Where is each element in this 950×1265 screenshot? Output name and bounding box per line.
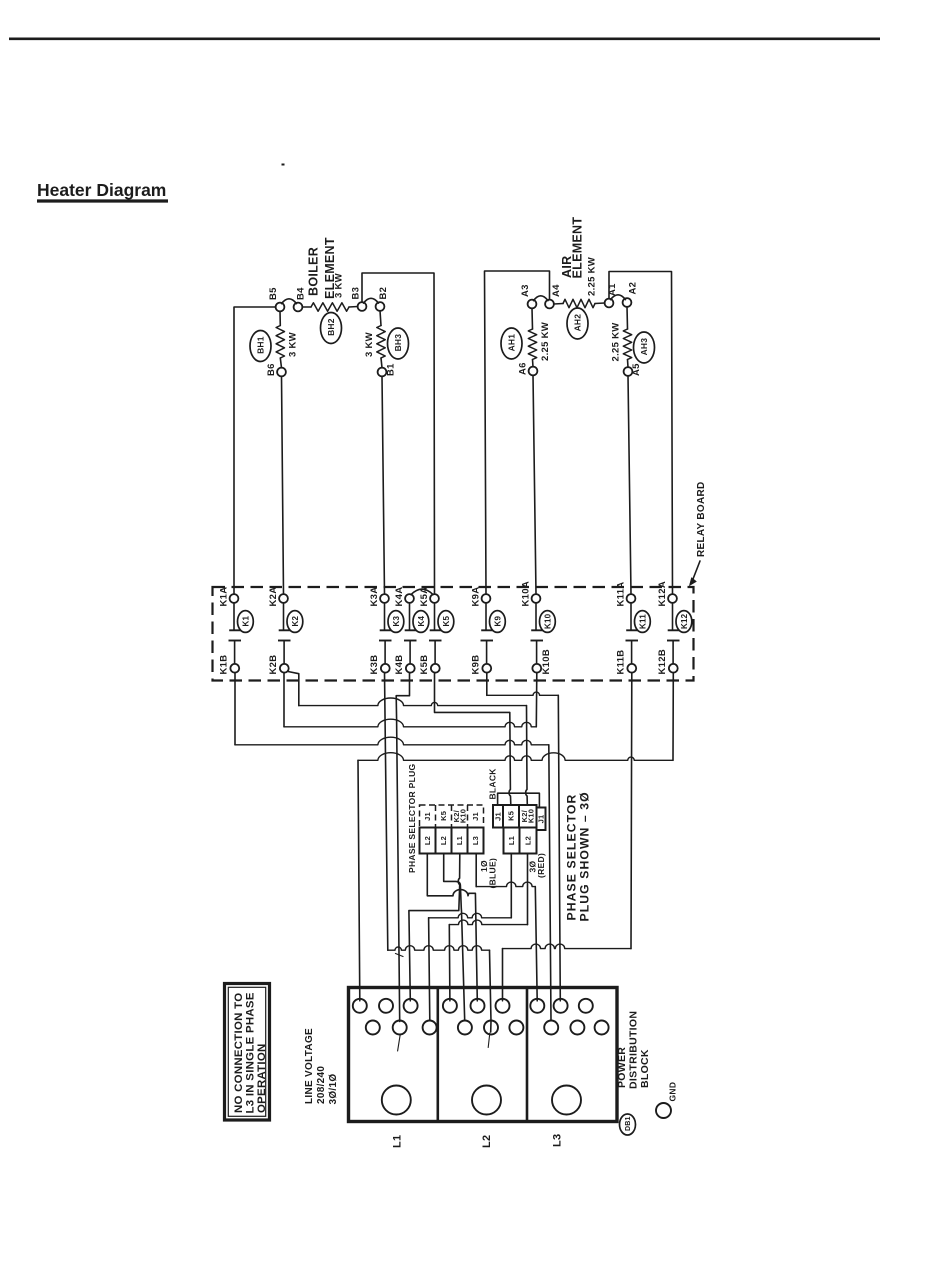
svg-text:K3A: K3A [369, 587, 380, 607]
svg-text:K2B: K2B [268, 655, 279, 675]
wire bus K11B to L2 (y948) [503, 944, 632, 949]
phase selector plug 3-phase pin row [504, 828, 520, 854]
block terminal top 7 [530, 999, 544, 1013]
svg-text:K10: K10 [458, 809, 467, 823]
wire blue L3 pin4 to L3 block c1 [476, 882, 535, 887]
designator oval BH1 [250, 331, 271, 362]
relay contact terminal K5B [431, 664, 440, 673]
svg-text:(BLUE): (BLUE) [488, 858, 498, 889]
svg-text:LINE VOLTAGE: LINE VOLTAGE [304, 1028, 315, 1104]
svg-text:L2: L2 [481, 1135, 493, 1148]
svg-text:208/240: 208/240 [316, 1066, 327, 1104]
block terminal top 5 [471, 999, 485, 1013]
wire K4B to L1 s2 [396, 673, 409, 1022]
terminal A5 [624, 367, 633, 376]
svg-text:PLUG SHOWN – 3Ø: PLUG SHOWN – 3Ø [578, 791, 592, 921]
block terminal mid 1 [366, 1021, 380, 1035]
designator oval AH3 [634, 332, 655, 363]
relay contact terminal K12A [668, 594, 677, 603]
svg-text:K10B: K10B [541, 649, 552, 675]
relay contact K1 [233, 603, 235, 631]
svg-text:3Ø/1Ø: 3Ø/1Ø [328, 1074, 339, 1105]
block terminal mid 4 [458, 1021, 472, 1035]
svg-text:BH3: BH3 [393, 334, 403, 352]
svg-text:BOILER: BOILER [307, 247, 321, 296]
terminal A4 [545, 300, 554, 309]
svg-text:L2: L2 [423, 836, 432, 845]
wire K11B down to bus [630, 673, 633, 949]
wire A4 top rail to K9A [485, 271, 550, 594]
relay contact terminal K11A [627, 594, 636, 603]
designator oval BH2 [321, 313, 342, 344]
wire L2 terminal s2 drop [490, 950, 492, 1032]
relay contact K3 [384, 603, 386, 631]
wire K10B down to junction [535, 673, 538, 727]
relay contact terminal K4A [405, 594, 414, 603]
wire K1B down [234, 673, 236, 745]
wire plug pin K5 drop [509, 712, 511, 804]
relay contact terminal K3A [380, 594, 389, 603]
svg-text:3 KW: 3 KW [333, 273, 344, 298]
block terminal top 2 [379, 999, 393, 1013]
terminal A3 [528, 300, 537, 309]
lug L3 [552, 1086, 581, 1115]
relay contact terminal K10B [532, 664, 541, 673]
svg-text:K10: K10 [543, 613, 552, 629]
svg-text:K2: K2 [291, 615, 300, 626]
svg-text:B2: B2 [378, 287, 389, 300]
svg-text:K3B: K3B [369, 655, 380, 675]
svg-text:NO CONNECTION TO: NO CONNECTION TO [233, 993, 245, 1113]
wire B5 left rail to K1A [234, 307, 276, 594]
svg-text:K5: K5 [507, 811, 516, 821]
svg-text:K4B: K4B [394, 655, 405, 675]
relay coil oval K12 [676, 611, 692, 633]
svg-text:B6: B6 [266, 363, 277, 376]
svg-text:K1B: K1B [219, 655, 230, 675]
block terminal mid 8 [570, 1021, 584, 1035]
svg-text:K5: K5 [439, 811, 448, 821]
wire B1 down to K3A [382, 376, 385, 594]
block terminal top 3 [404, 999, 418, 1013]
wire L2 terminal c3 drop [502, 949, 504, 1001]
svg-text:K12B: K12B [657, 649, 668, 675]
block terminal top 6 [496, 999, 510, 1013]
wire B6 down to K2A [282, 376, 284, 594]
svg-text:DISTRIBUTION: DISTRIBUTION [627, 1011, 639, 1089]
wire K12B down [672, 673, 674, 761]
block terminal top 9 [579, 999, 593, 1013]
power distribution block outline [349, 988, 618, 1122]
resistor AH2 2.25KW [554, 303, 563, 306]
warning box NO CONNECTION TO L3 [225, 984, 270, 1121]
svg-text:B4: B4 [295, 287, 306, 300]
svg-text:K9: K9 [493, 615, 502, 626]
resistor BH1 3KW [279, 311, 281, 325]
svg-text:OPERATION: OPERATION [256, 1043, 268, 1113]
wire bus K2B to plug pin K2/K10 [299, 698, 527, 706]
wire K5B down [434, 673, 436, 713]
svg-text:2.25 KW: 2.25 KW [540, 322, 551, 361]
relay coil oval K11 [635, 611, 651, 633]
block divider L2/L3 [526, 988, 529, 1122]
wire blue L2 pin1 to L2 block c2 [427, 854, 477, 1001]
stray tick at K4B wire crossing [396, 954, 404, 957]
relay contact terminal K3B [381, 664, 390, 673]
svg-text:BH1: BH1 [256, 336, 266, 354]
resistor BH2 3KW [302, 306, 311, 308]
designator oval AH1 [501, 328, 522, 359]
svg-text:2.25 KW: 2.25 KW [610, 322, 621, 361]
wire A5 down to K11A [628, 376, 631, 595]
svg-text:B3: B3 [350, 287, 361, 300]
svg-text:J1: J1 [423, 812, 432, 821]
terminal B6 [277, 368, 286, 377]
phase selector plug 1-phase (blue) pin row [420, 828, 484, 854]
svg-text:K9B: K9B [471, 655, 482, 675]
relay contact terminal K1A [230, 594, 239, 603]
svg-text:A4: A4 [551, 284, 562, 297]
svg-text:K4A: K4A [394, 587, 405, 607]
relay coil oval K4 [413, 611, 429, 633]
relay board dashed outline [213, 587, 694, 681]
svg-text:Heater Diagram: Heater Diagram [37, 180, 166, 200]
relay contact terminal K9B [482, 664, 491, 673]
designator oval BH3 [388, 328, 409, 359]
designator oval DB1 [620, 1114, 636, 1135]
svg-text:L1: L1 [507, 836, 516, 845]
wire blue L1 pin3 to L1 block c3 [409, 854, 460, 1001]
relay contact K12 [672, 603, 674, 631]
block terminal mid 5 [484, 1021, 498, 1035]
relay coil oval K3 [388, 611, 404, 633]
phase selector plug J1 1-phase socket row [420, 805, 484, 828]
relay contact terminal K12B [669, 664, 678, 673]
svg-text:A5: A5 [631, 363, 642, 376]
wire A1 top rail to K12A [609, 272, 673, 595]
lug L2 [472, 1086, 501, 1115]
svg-text:L1: L1 [391, 1135, 403, 1148]
svg-text:J1: J1 [471, 812, 480, 821]
relay contact K9 [485, 603, 487, 631]
svg-text:K5: K5 [442, 615, 451, 626]
svg-text:L3 IN SINGLE PHASE: L3 IN SINGLE PHASE [244, 992, 256, 1113]
svg-text:AH1: AH1 [507, 334, 517, 352]
svg-text:J1: J1 [537, 815, 546, 824]
block terminal mid 2 [393, 1021, 407, 1035]
resistor AH3 2.25KW [626, 307, 629, 329]
wire A6 down to K10A [533, 375, 536, 594]
svg-text:AH3: AH3 [639, 338, 649, 356]
svg-text:K10: K10 [526, 809, 535, 823]
resistor BH3 3KW [380, 311, 381, 326]
svg-text:L2: L2 [524, 836, 533, 845]
wire x549 down to L3 terminal [549, 745, 551, 1021]
svg-text:3 KW: 3 KW [287, 332, 298, 357]
block terminal top 4 [443, 999, 457, 1013]
svg-text:DB1: DB1 [625, 1116, 632, 1131]
svg-text:L2: L2 [439, 836, 448, 845]
svg-text:RELAY BOARD: RELAY BOARD [696, 481, 707, 557]
wire B3 top rail to K5A [362, 273, 435, 594]
connector arc A3-A4 [534, 296, 549, 301]
svg-text:A2: A2 [627, 282, 638, 295]
relay contact terminal K10A [532, 594, 541, 603]
svg-text:K1A: K1A [219, 587, 230, 607]
designator oval AH2 [567, 308, 588, 339]
svg-text:K9A: K9A [471, 587, 482, 607]
terminal A1 [605, 299, 614, 308]
svg-text:K2A: K2A [268, 587, 279, 607]
relay contact K5 [434, 603, 436, 631]
relay coil oval K10 [540, 611, 556, 633]
terminal B5 [276, 303, 285, 312]
wire bus K2B-K10B [284, 719, 536, 727]
svg-text:PHASE SELECTOR PLUG: PHASE SELECTOR PLUG [407, 763, 417, 873]
relay board pointer arrow [693, 561, 700, 579]
wire J1 to J1 jumper [498, 793, 540, 807]
svg-text:BLOCK: BLOCK [639, 1049, 651, 1088]
relay contact terminal K11B [627, 664, 636, 673]
svg-text:K10A: K10A [521, 581, 532, 607]
ground terminal GND [656, 1103, 671, 1118]
svg-text:(RED): (RED) [536, 853, 546, 878]
svg-text:L3: L3 [551, 1134, 563, 1147]
wire 3-phase L1 pin to L1 block s3 [429, 913, 512, 918]
svg-text:K3: K3 [392, 615, 401, 626]
svg-text:J1: J1 [494, 812, 503, 821]
relay coil oval K2 [287, 611, 303, 633]
top rule [9, 37, 880, 40]
wire K2B down [283, 673, 285, 727]
relay contact terminal K4B [406, 664, 415, 673]
svg-text:K4: K4 [417, 615, 426, 626]
block terminal mid 9 [595, 1021, 609, 1035]
tick mark in L2 s2 [488, 1033, 490, 1048]
block terminal top 1 [353, 999, 367, 1013]
wire bus K3B to L2 s2 (y950) [388, 946, 490, 951]
terminal B3 [358, 302, 367, 311]
stray speck [282, 164, 285, 166]
resistor AH1 2.25KW [531, 308, 534, 329]
connector arc B5-B4 [282, 299, 297, 304]
connector arc B3-B2 [364, 298, 379, 303]
tick mark in L1 s2 [398, 1034, 401, 1051]
svg-text:K11: K11 [638, 614, 647, 629]
connector arc A1-A2 [611, 295, 626, 300]
svg-text:ELEMENT: ELEMENT [571, 217, 585, 279]
svg-text:A3: A3 [520, 284, 531, 297]
wire 3-phase L2 pin to L2 block c1 [449, 920, 527, 925]
svg-text:GND: GND [668, 1082, 678, 1102]
svg-text:3 KW: 3 KW [364, 332, 375, 357]
terminal B2 [376, 302, 385, 311]
wire blue L2 pin2 to L2 block s1 [444, 854, 465, 1021]
block terminal top 8 [554, 999, 568, 1013]
relay contact terminal K5A [430, 594, 439, 603]
phase selector plug 3-phase socket row (BLACK) [493, 805, 503, 828]
wire bus K12B to L1 (y760) [358, 753, 673, 761]
svg-text:L1: L1 [455, 836, 464, 845]
svg-text:AH2: AH2 [573, 314, 583, 332]
relay contact K4 [409, 603, 411, 631]
wire plug pin K2/K10 drop [526, 706, 528, 805]
terminal B1 [378, 368, 387, 377]
block terminal mid 6 [509, 1021, 523, 1035]
terminal A6 [529, 367, 538, 376]
svg-text:BLACK: BLACK [488, 768, 498, 800]
svg-text:BH2: BH2 [326, 318, 336, 336]
block terminal mid 7 [544, 1021, 558, 1035]
block divider L1/L2 [436, 988, 439, 1122]
relay coil oval K5 [438, 611, 454, 633]
svg-text:K11B: K11B [616, 650, 627, 675]
svg-text:B1: B1 [385, 363, 396, 376]
relay contact terminal K2A [279, 594, 288, 603]
terminal B4 [294, 303, 303, 312]
relay contact terminal K1B [230, 664, 239, 673]
relay contact terminal K9A [482, 594, 491, 603]
relay contact terminal K2B [280, 664, 289, 673]
relay coil oval K9 [490, 611, 506, 633]
svg-text:L3: L3 [471, 836, 480, 845]
wire K3B down to bus [385, 673, 388, 951]
svg-text:K1: K1 [241, 615, 250, 626]
svg-text:PHASE SELECTOR: PHASE SELECTOR [565, 794, 579, 921]
terminal A2 [623, 298, 632, 307]
block terminal mid 3 [423, 1021, 437, 1035]
jumper arc K4A-K5A [411, 589, 433, 595]
wire x358 down to L1 terminal [358, 760, 360, 1001]
svg-text:POWER: POWER [616, 1047, 628, 1088]
wire K2B jog to bus [288, 672, 299, 706]
svg-text:A6: A6 [517, 362, 528, 375]
relay contact K2 [283, 603, 285, 631]
svg-text:K11A: K11A [616, 582, 627, 607]
svg-text:K12A: K12A [657, 581, 668, 607]
svg-text:K12: K12 [680, 613, 689, 629]
wire K9B to L3 terminal (via x558) [487, 692, 559, 695]
svg-text:2.25 KW: 2.25 KW [586, 257, 597, 296]
relay contact K11 [630, 603, 632, 631]
wire bus K5B to plug pin K5 [435, 711, 510, 713]
relay coil oval K1 [238, 611, 254, 633]
wire bus K1B to L3 (via x549) [235, 737, 549, 745]
svg-text:K5B: K5B [419, 655, 430, 675]
lug L1 [382, 1086, 411, 1115]
relay contact K10 [535, 603, 537, 631]
svg-text:B5: B5 [268, 287, 279, 300]
